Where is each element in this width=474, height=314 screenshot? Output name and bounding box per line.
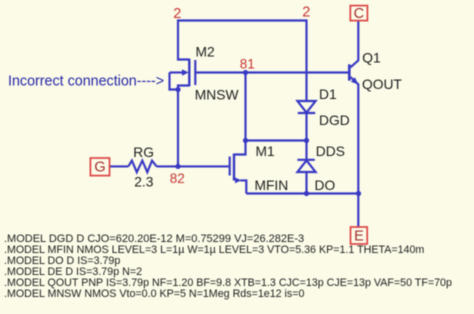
- svg-text:RG: RG: [133, 145, 154, 160]
- svg-text:E: E: [354, 229, 364, 245]
- svg-text:G: G: [94, 160, 105, 176]
- svg-text:C: C: [354, 6, 364, 22]
- svg-text:DGD: DGD: [319, 113, 350, 128]
- svg-text:Incorrect connection---->: Incorrect connection---->: [8, 74, 164, 90]
- svg-text:2.3: 2.3: [134, 175, 154, 190]
- svg-text:2: 2: [173, 6, 181, 22]
- svg-text:M1: M1: [256, 144, 275, 159]
- svg-text:81: 81: [240, 57, 255, 72]
- svg-text:.MODEL MNSW NMOS Vto=0.0 KP=5: .MODEL MNSW NMOS Vto=0.0 KP=5 N=1Meg Rds…: [4, 288, 305, 300]
- svg-text:2: 2: [302, 5, 310, 21]
- svg-text:DDS: DDS: [316, 144, 345, 159]
- svg-text:MNSW: MNSW: [195, 88, 239, 103]
- svg-text:DO: DO: [315, 178, 336, 193]
- svg-text:M2: M2: [196, 44, 215, 59]
- svg-text:QOUT: QOUT: [362, 77, 402, 92]
- svg-text:D1: D1: [319, 87, 337, 102]
- svg-text:Q1: Q1: [362, 51, 380, 66]
- svg-text:MFIN: MFIN: [255, 178, 289, 193]
- svg-text:82: 82: [170, 171, 185, 186]
